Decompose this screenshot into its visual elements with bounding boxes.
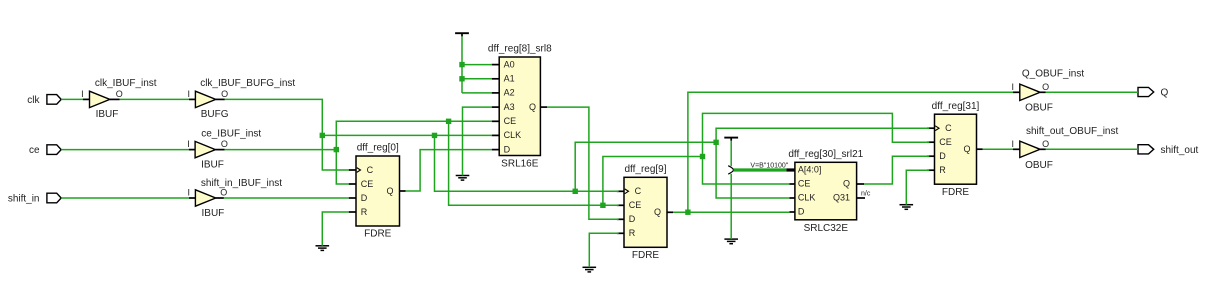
- wire ce_IBUF: down at x336 to dff_reg[0].CE: [336, 150, 348, 184]
- svg-text:CE: CE: [939, 137, 952, 147]
- svg-text:ce: ce: [29, 145, 40, 156]
- clock chevron on pin C of dff_reg[9]: [625, 189, 629, 194]
- power (const1) above A[4:0] const bus of SRLC32E: [724, 138, 738, 141]
- pin stub D of dff_reg[9]: [617, 218, 624, 220]
- ground below dff_reg[0] R: [316, 246, 330, 251]
- pin stub A1 of dff_reg[8]_srl8: [492, 78, 500, 80]
- svg-text:A1: A1: [504, 74, 515, 84]
- svg-text:V=B"10100": V=B"10100": [750, 162, 788, 169]
- wire dff_reg[9].Q to SRLC32E.D: [673, 211, 789, 213]
- flip-flop dff_reg[31] (FDRE) block body: [935, 114, 977, 184]
- svg-text:CLK: CLK: [798, 193, 816, 203]
- svg-text:O: O: [221, 89, 228, 99]
- svg-text:OBUF: OBUF: [1025, 103, 1053, 114]
- pin stub A2 of dff_reg[8]_srl8: [492, 92, 500, 94]
- flip-flop dff_reg[0] (FDRE) block body: [356, 156, 400, 226]
- bus pin stub A[4:0] of dff_reg[30]_srl21: [786, 168, 795, 171]
- pin stub O of clk_IBUF_inst: [110, 98, 120, 100]
- wire clk_IBUF_BUFG: down at x716 to SRLC32E.CLK: [716, 142, 789, 198]
- shift-register dff_reg[8]_srl8 (SRL16E) block body: [499, 57, 540, 156]
- pin stub CLK of dff_reg[30]_srl21: [789, 197, 795, 199]
- pin stub Q of dff_reg[30]_srl21: [857, 183, 864, 185]
- wire ce_IBUF: branch down at x448 to dff_reg[9].CE: [449, 121, 619, 205]
- pin stub O of shift_in_IBUF_inst: [216, 197, 224, 199]
- bus taper chevron at A[4:0] constant: [728, 166, 733, 174]
- wire shift_out_OBUF output to port shift_out: [1046, 148, 1138, 150]
- wire ce_IBUF: down at x702 to SRLC32E.CE: [703, 157, 790, 185]
- buffer clk_IBUF_BUFG_inst (BUFG): [195, 91, 215, 107]
- pin stub R of dff_reg[9]: [617, 232, 624, 234]
- junction clk branch to right trunk: [573, 189, 578, 194]
- svg-text:clk: clk: [27, 95, 40, 106]
- svg-text:O: O: [116, 89, 123, 99]
- svg-text:IBUF: IBUF: [202, 208, 225, 219]
- wire const1 stem down from power bar to bus point: [730, 141, 732, 166]
- wire const0: bus point down to ground: [730, 174, 732, 239]
- pin stub CE of dff_reg[9]: [617, 204, 624, 206]
- svg-text:Q: Q: [963, 144, 970, 154]
- svg-text:dff_reg[0]: dff_reg[0]: [357, 143, 399, 154]
- svg-text:R: R: [361, 207, 368, 217]
- wire clk_IBUF_BUFG: CLK row to SRL16E.CLK: [322, 134, 491, 136]
- pin stub Q of dff_reg[9]: [667, 211, 673, 213]
- output port shift_out: [1138, 145, 1154, 154]
- wire ce_IBUF: branch up at x602 to right-side trunk: [603, 157, 703, 206]
- junction ce right trunk fanout: [700, 154, 705, 159]
- clock chevron on pin C of dff_reg[0]: [357, 168, 361, 173]
- svg-text:C: C: [367, 165, 374, 175]
- wire clk_IBUF_BUFG: branch down at x434 to dff_reg[9].C: [435, 135, 619, 191]
- svg-text:R: R: [939, 165, 946, 175]
- pin stub A0 of dff_reg[8]_srl8: [492, 64, 500, 66]
- svg-text:R: R: [629, 228, 636, 238]
- svg-text:OBUF: OBUF: [1025, 160, 1053, 171]
- power (const1) feeding A0/A1/A2 of SRL16E: [455, 33, 469, 36]
- pin stub Q31 of dff_reg[30]_srl21 (unconnected): [857, 197, 865, 199]
- svg-text:IBUF: IBUF: [96, 109, 119, 120]
- pin stub D of dff_reg[0]: [349, 197, 356, 199]
- wire SRL16E.Q down to dff_reg[9].D: [547, 107, 619, 219]
- svg-text:C: C: [635, 186, 642, 196]
- svg-text:shift_out_OBUF_inst: shift_out_OBUF_inst: [1026, 126, 1118, 137]
- svg-text:dff_reg[30]_srl21: dff_reg[30]_srl21: [788, 149, 863, 160]
- svg-text:O: O: [221, 139, 228, 149]
- pin stub R of dff_reg[0]: [349, 211, 356, 213]
- svg-text:Q: Q: [843, 179, 850, 189]
- svg-text:A3: A3: [504, 102, 515, 112]
- svg-text:dff_reg[31]: dff_reg[31]: [932, 101, 980, 112]
- junction clk trunk / CLK row: [320, 133, 325, 138]
- pin stub D of dff_reg[31]: [927, 155, 934, 157]
- ground below A[4:0] const bus of SRLC32E: [724, 239, 738, 244]
- buffer clk_IBUF_inst (IBUF): [90, 91, 110, 107]
- pin stub CE of dff_reg[8]_srl8: [492, 120, 500, 122]
- wire dff_reg[31].Q to shift_out_OBUF input: [983, 148, 1014, 150]
- svg-text:D: D: [504, 144, 511, 154]
- buffer shift_in_IBUF_inst (IBUF): [195, 190, 215, 206]
- ground below dff_reg[9] R: [583, 267, 597, 272]
- svg-text:FDRE: FDRE: [364, 229, 392, 240]
- svg-text:Q_OBUF_inst: Q_OBUF_inst: [1022, 69, 1084, 80]
- pin stub C of dff_reg[0]: [349, 169, 356, 171]
- wire clk_IBUF_BUFG: branch up at x575 to right-side clock trunk: [575, 142, 716, 191]
- wire Q_OBUF output to port Q: [1046, 91, 1138, 93]
- pin stub O of Q_OBUF_inst: [1040, 91, 1046, 93]
- svg-text:n/c: n/c: [861, 191, 871, 198]
- pin stub D of dff_reg[30]_srl21: [789, 211, 795, 213]
- wire clk_IBUF_BUFG: up at x716 then right to dff_reg[31].C: [716, 128, 929, 142]
- wire const0: dff_reg[0].R to ground: [322, 212, 348, 246]
- wire const1 to SRL16E.A1: [462, 78, 492, 80]
- pin stub Q of dff_reg[31]: [977, 148, 983, 150]
- output port Q: [1138, 87, 1154, 96]
- svg-text:D: D: [798, 207, 805, 217]
- junction dff_reg[9].Q / Q net branch: [685, 210, 690, 215]
- wire const1 stem down from power bar: [461, 36, 463, 93]
- svg-text:Q31: Q31: [833, 193, 850, 203]
- svg-text:CE: CE: [629, 200, 642, 210]
- wire const0: dff_reg[9].R to ground: [589, 233, 618, 267]
- svg-text:shift_in_IBUF_inst: shift_in_IBUF_inst: [201, 178, 282, 189]
- svg-text:I: I: [188, 188, 191, 198]
- shift-register dff_reg[30]_srl21 (SRLC32E) block body: [795, 162, 857, 220]
- buffer shift_out_OBUF_inst (OBUF): [1020, 141, 1040, 157]
- svg-text:dff_reg[8]_srl8: dff_reg[8]_srl8: [488, 44, 552, 55]
- svg-text:shift_out: shift_out: [1161, 145, 1199, 156]
- svg-text:Q: Q: [529, 102, 536, 112]
- pin stub I of shift_in_IBUF_inst: [189, 197, 195, 199]
- junction const1 / A1: [459, 76, 464, 81]
- svg-text:CE: CE: [504, 116, 517, 126]
- svg-text:dff_reg[9]: dff_reg[9]: [624, 164, 666, 175]
- svg-text:SRLC32E: SRLC32E: [804, 223, 849, 234]
- wire clk_IBUF_BUFG: BUFG output right then down to dff_reg[0].C: [225, 99, 349, 170]
- svg-text:D: D: [361, 193, 368, 203]
- pin stub CE of dff_reg[0]: [349, 183, 356, 185]
- pin stub A3 of dff_reg[8]_srl8: [492, 106, 500, 108]
- ground below dff_reg[31] R: [900, 205, 914, 210]
- ground below A3 of SRL16E: [456, 176, 470, 181]
- junction const1 / A0: [459, 62, 464, 67]
- svg-text:CLK: CLK: [504, 130, 522, 140]
- pin stub R of dff_reg[31]: [927, 169, 934, 171]
- svg-text:clk_IBUF_BUFG_inst: clk_IBUF_BUFG_inst: [200, 78, 295, 89]
- svg-text:I: I: [81, 89, 84, 99]
- wire ce_IBUF: IBUF output to junction x336: [225, 149, 337, 151]
- junction CE row / dff_reg[9].CE branch: [446, 119, 451, 124]
- pin stub O of shift_out_OBUF_inst: [1040, 148, 1046, 150]
- wire Q net: up at x688 then right to Q_OBUF input: [688, 92, 1013, 212]
- pin stub O of ce_IBUF_inst: [215, 149, 224, 151]
- junction CLK row / dff_reg[9].C branch: [432, 133, 437, 138]
- wire SRLC32E.Q up to dff_reg[31].D: [864, 156, 929, 184]
- pin stub CE of dff_reg[30]_srl21: [789, 183, 795, 185]
- junction ce branch to right trunk: [600, 203, 605, 208]
- svg-text:Q: Q: [386, 186, 393, 196]
- wire clk_IBUF: IBUF output to BUFG input: [120, 98, 190, 100]
- pin stub Q of dff_reg[0]: [400, 190, 406, 192]
- svg-text:BUFG: BUFG: [201, 109, 229, 120]
- svg-text:O: O: [220, 188, 227, 198]
- svg-text:O: O: [1042, 82, 1049, 92]
- wire ce_IBUF: up at x702 then right and down to dff_reg[31].CE: [703, 113, 930, 156]
- wire dff_reg[0].Q to SRL16E.D: [406, 150, 492, 191]
- wire ce: port to IBUF input: [61, 149, 189, 151]
- input port ce: [47, 145, 61, 155]
- svg-text:FDRE: FDRE: [632, 250, 660, 261]
- wire const0: SRL16E.A3 to ground: [463, 107, 492, 175]
- svg-text:FDRE: FDRE: [942, 187, 970, 198]
- clock chevron on pin C of dff_reg[31]: [935, 126, 939, 131]
- svg-text:A0: A0: [504, 59, 515, 69]
- pin stub I of shift_out_OBUF_inst: [1013, 148, 1020, 150]
- pin stub C of dff_reg[31]: [927, 127, 934, 129]
- svg-text:I: I: [1011, 82, 1014, 92]
- pin stub Q of dff_reg[8]_srl8: [540, 106, 547, 108]
- junction ce fanout: [334, 147, 339, 152]
- svg-text:C: C: [945, 123, 952, 133]
- wire shift_in: port to IBUF input: [61, 197, 189, 199]
- pin stub I of clk_IBUF_BUFG_inst: [189, 98, 195, 100]
- wire const1 to SRL16E.A2: [462, 92, 492, 94]
- svg-text:I: I: [187, 139, 190, 149]
- wire ce_IBUF: up at x336 then right to SRL16E.CE: [336, 121, 491, 149]
- input port clk: [47, 95, 61, 105]
- svg-text:A2: A2: [504, 88, 515, 98]
- pin stub I of Q_OBUF_inst: [1013, 91, 1020, 93]
- wire shift_in_IBUF: to dff_reg[0].D: [224, 197, 349, 199]
- buffer Q_OBUF_inst (OBUF): [1020, 84, 1040, 100]
- svg-text:D: D: [629, 214, 636, 224]
- wire const1 to SRL16E.A0: [462, 64, 492, 66]
- svg-text:I: I: [187, 89, 190, 99]
- pin stub O of clk_IBUF_BUFG_inst: [216, 98, 225, 100]
- svg-text:SRL16E: SRL16E: [501, 159, 539, 170]
- wire clk: port to IBUF input: [61, 98, 83, 100]
- pin stub C of dff_reg[9]: [617, 190, 624, 192]
- svg-text:A[4:0]: A[4:0]: [798, 165, 822, 175]
- input port shift_in: [47, 193, 61, 203]
- svg-text:clk_IBUF_inst: clk_IBUF_inst: [95, 78, 157, 89]
- svg-text:IBUF: IBUF: [201, 159, 224, 170]
- svg-text:D: D: [939, 151, 946, 161]
- svg-text:CE: CE: [361, 179, 374, 189]
- pin stub CE of dff_reg[31]: [927, 141, 934, 143]
- svg-text:Q: Q: [1161, 88, 1169, 99]
- pin stub D of dff_reg[8]_srl8: [492, 149, 500, 151]
- bus wire A[4:0] constant to SRLC32E: [734, 168, 787, 171]
- svg-text:Q: Q: [654, 207, 661, 217]
- svg-text:O: O: [1042, 139, 1049, 149]
- junction clk right trunk fanout: [713, 140, 718, 145]
- svg-text:ce_IBUF_inst: ce_IBUF_inst: [201, 128, 261, 139]
- svg-text:shift_in: shift_in: [8, 194, 40, 205]
- svg-text:CE: CE: [798, 179, 811, 189]
- flip-flop dff_reg[9] (FDRE) block body: [624, 177, 667, 247]
- pin stub CLK of dff_reg[8]_srl8: [492, 134, 500, 136]
- pin stub I of ce_IBUF_inst: [189, 149, 195, 151]
- wire const0: dff_reg[31].R to ground: [906, 170, 929, 205]
- svg-text:I: I: [1011, 139, 1014, 149]
- pin stub I of clk_IBUF_inst: [83, 98, 90, 100]
- buffer ce_IBUF_inst (IBUF): [195, 141, 215, 157]
